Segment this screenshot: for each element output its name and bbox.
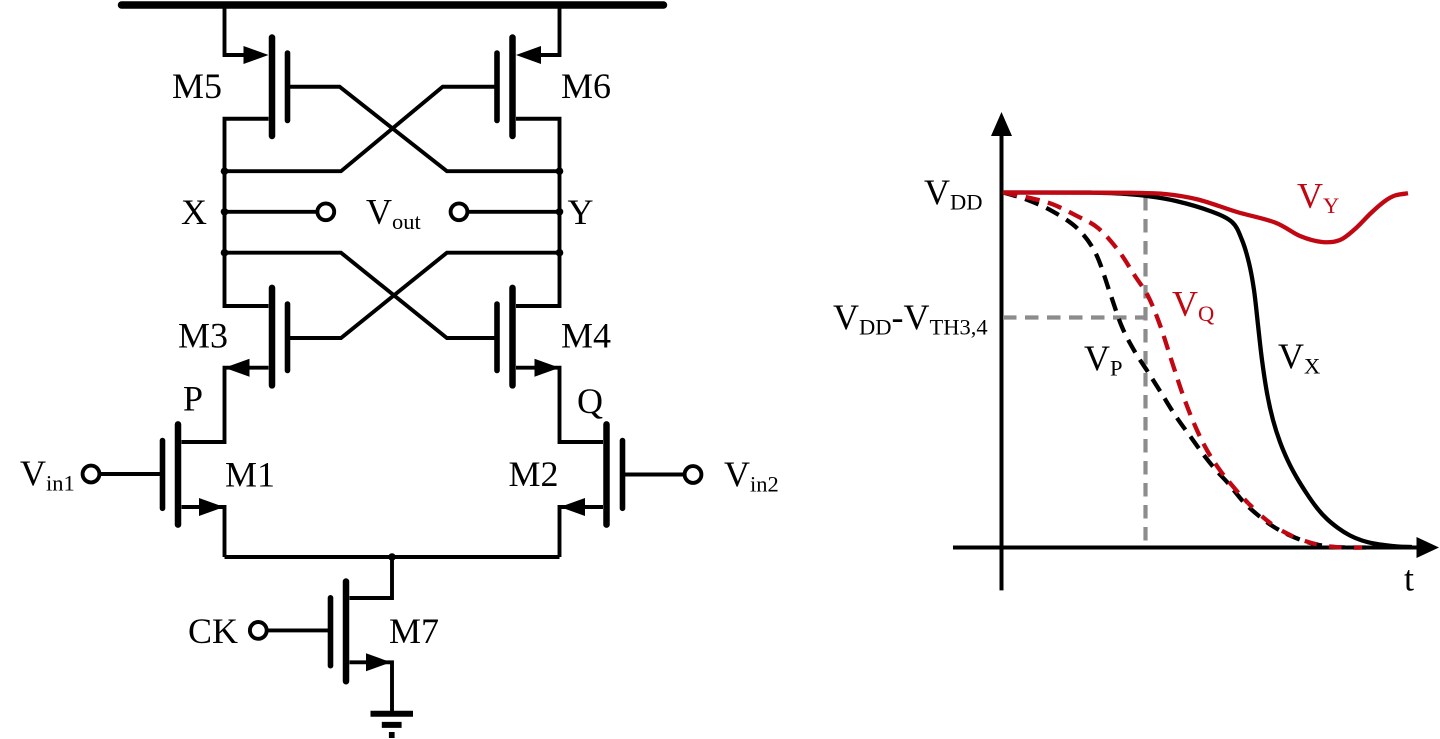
svg-text:M7: M7 [389, 611, 439, 651]
svg-text:M4: M4 [561, 316, 611, 356]
svg-text:M1: M1 [225, 455, 275, 495]
svg-text:X: X [181, 192, 207, 232]
svg-text:Y: Y [568, 192, 594, 232]
svg-text:M3: M3 [178, 316, 228, 356]
svg-text:P: P [183, 379, 203, 419]
svg-text:M2: M2 [508, 454, 558, 494]
svg-text:M6: M6 [561, 66, 611, 106]
svg-text:Q: Q [577, 381, 603, 421]
svg-text:M5: M5 [172, 66, 222, 106]
svg-text:t: t [1404, 559, 1414, 599]
svg-text:CK: CK [188, 611, 238, 651]
